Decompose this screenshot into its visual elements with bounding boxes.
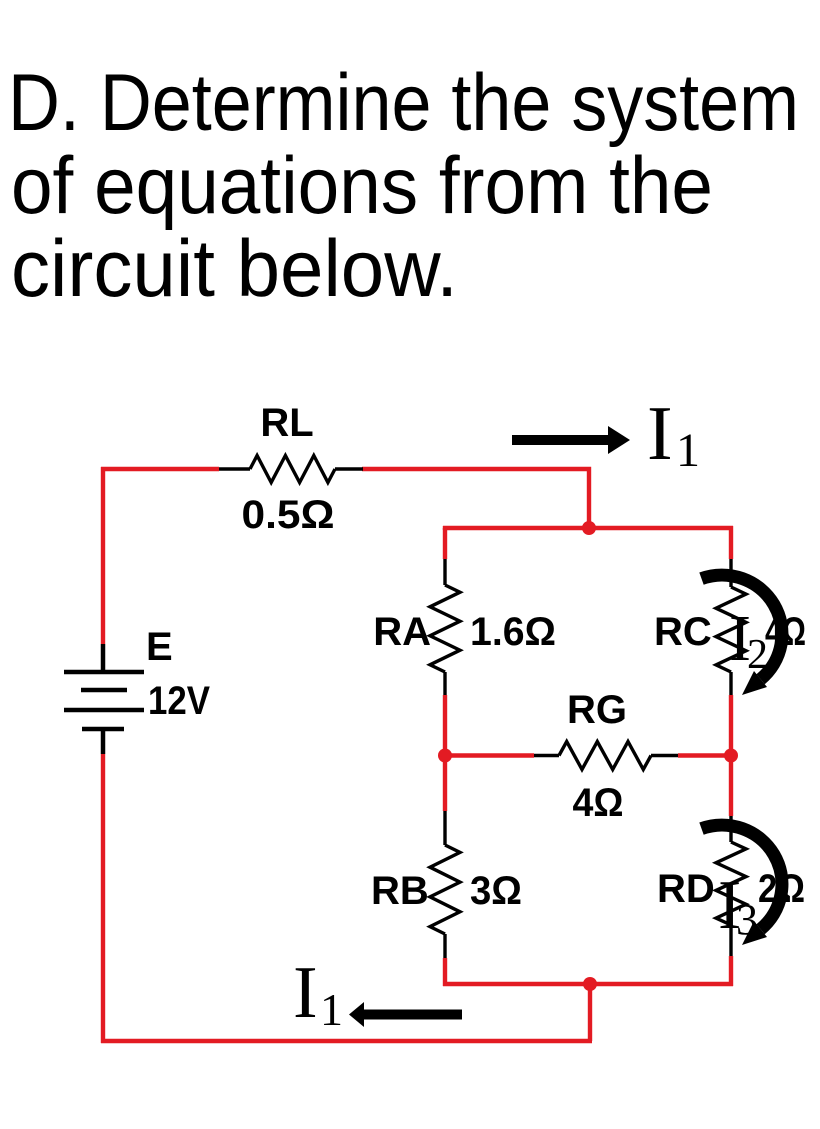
battery plate 1 long [64,670,144,675]
svg-text:RL: RL [260,401,313,445]
battery E top stub [101,644,106,672]
resistor RD leads [729,816,732,956]
svg-text:of equations from the: of equations from the [11,141,713,231]
node junction top [582,521,596,535]
curved arrow I2 (around RC) [702,575,782,695]
svg-text:12V: 12V [148,679,210,723]
svg-text:RG: RG [567,688,627,732]
wire bottom drop [588,984,592,1041]
arrow I1 bottom [349,1002,462,1027]
node junction bottom [583,977,597,991]
curved arrow I3 (around RD) [702,825,782,945]
svg-text:RB: RB [371,869,429,913]
wire bridge top [443,526,733,559]
wire top right segment [362,469,589,530]
wire bridge left upper leads [443,528,447,986]
svg-text:1: 1 [676,424,700,477]
resistor RL zigzag [250,456,335,483]
svg-text:3: 3 [736,895,758,944]
svg-text:D. Determine the system: D. Determine the system [8,58,799,148]
battery plate 2 short [81,688,127,693]
svg-text:E: E [146,625,173,669]
resistor RA zigzag [430,585,460,672]
wire bottom long run [101,1039,592,1043]
resistor RB leads [443,811,446,958]
wire middle (RG row) [443,753,733,757]
node junction mid-left [438,749,452,763]
resistor RL leads [219,467,363,470]
svg-text:RC: RC [654,610,712,654]
svg-text:3Ω: 3Ω [470,869,522,913]
svg-text:1: 1 [320,984,343,1035]
svg-text:RA: RA [373,610,431,654]
wire bridge bottom [443,982,733,986]
resistor RG zigzag [559,742,651,770]
battery bottom stub [101,729,106,754]
wire top left segment [101,467,219,471]
resistor RD zigzag [716,842,746,925]
resistor RG leads [534,754,678,757]
node junction mid-right [724,749,738,763]
svg-text:2: 2 [747,632,768,678]
battery plate 4 short [82,727,124,732]
svg-text:I: I [293,952,318,1034]
svg-text:RD: RD [657,867,715,911]
wire outer left lower vertical [101,754,105,1043]
svg-text:4Ω: 4Ω [573,781,624,825]
resistor RC leads [729,559,732,695]
resistor RB zigzag [430,845,460,934]
resistor RA leads [443,559,446,695]
resistor RC zigzag [716,587,746,672]
arrow I1 top [512,426,630,454]
svg-text:I: I [647,390,673,476]
svg-text:1.6Ω: 1.6Ω [470,610,556,654]
wire outer top-left vertical [101,467,105,644]
svg-text:0.5Ω: 0.5Ω [242,493,335,537]
battery plate 3 long [64,708,144,713]
svg-text:circuit below.: circuit below. [11,224,458,314]
wire bridge right leads [729,695,733,986]
